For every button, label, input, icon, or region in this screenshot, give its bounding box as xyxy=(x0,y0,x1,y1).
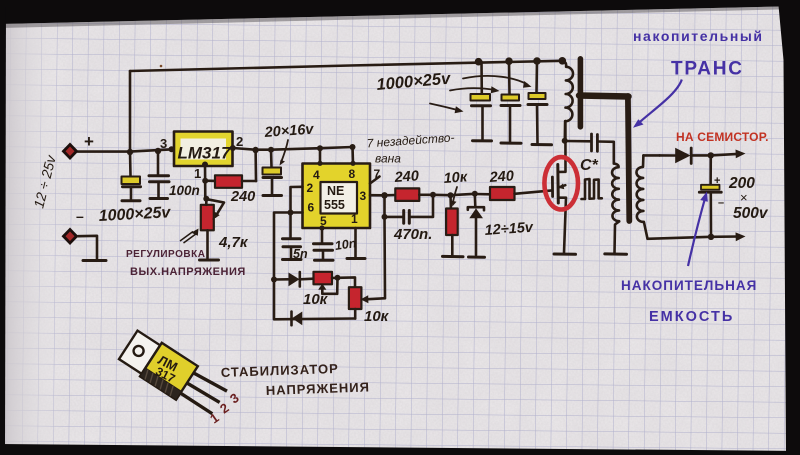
junction: LM317 pin 2 xyxy=(230,145,236,151)
junction: output minus node xyxy=(708,234,714,240)
terminal + (input plus) xyxy=(62,143,79,161)
svg-text:НАКОПИТЕЛЬНАЯ: НАКОПИТЕЛЬНАЯ xyxy=(621,278,757,293)
wiper R4 xyxy=(366,298,385,299)
svg-text:3: 3 xyxy=(160,136,167,151)
capacitor bank C5 1000x25v xyxy=(535,61,538,93)
junction: bus / zener xyxy=(472,191,478,197)
junction: rail / pin 8 xyxy=(350,144,356,150)
wire to R4 xyxy=(338,277,356,287)
svg-text:2: 2 xyxy=(307,181,314,195)
svg-text:C*: C* xyxy=(580,157,599,174)
svg-text:500v: 500v xyxy=(733,205,769,222)
svg-text:5: 5 xyxy=(320,214,327,228)
arrow output top xyxy=(711,154,740,156)
svg-text:–: – xyxy=(718,197,724,209)
svg-text:LM317: LM317 xyxy=(178,144,232,163)
junction: top bus / C5 xyxy=(533,57,541,65)
package bottom hatched edge xyxy=(140,368,182,400)
NE555 pin numbers xyxy=(307,167,381,228)
svg-text:вана: вана xyxy=(375,152,401,166)
wiper 4.7k xyxy=(208,199,225,216)
junction: node left of timing loop xyxy=(271,277,277,283)
red circle around Q1 xyxy=(544,157,578,209)
junction: top bus / C4 xyxy=(505,57,513,65)
capacitor C 1000x25v input electrolytic xyxy=(129,152,132,176)
scan border bottom xyxy=(0,444,800,455)
junction: drain / C* xyxy=(562,138,568,144)
diode D3 output xyxy=(660,154,675,157)
svg-text:3: 3 xyxy=(360,189,367,203)
svg-text:555: 555 xyxy=(324,198,345,212)
pulse waveform glyph xyxy=(582,179,602,199)
svg-text:470n.: 470n. xyxy=(393,226,432,243)
junction: pin 8 at box xyxy=(350,161,355,166)
legs xyxy=(193,370,227,393)
svg-text:1: 1 xyxy=(351,212,358,226)
svg-text:ТРАНС: ТРАНС xyxy=(671,59,744,80)
arrow output bottom xyxy=(711,235,740,238)
IC U2 NE555 box xyxy=(303,164,371,229)
svg-text:+: + xyxy=(84,132,94,151)
junction: input rail / C 1000x25v xyxy=(127,149,133,155)
capacitor bank C3 1000x25v xyxy=(480,62,483,94)
junction: output rail / R1 xyxy=(252,147,258,153)
transistor Q1 mosfet xyxy=(551,177,554,197)
junction: pins 2+6 xyxy=(288,210,294,216)
pin 3 stub xyxy=(370,194,385,197)
svg-text:7: 7 xyxy=(374,167,381,181)
wire: LM317 pin1 down xyxy=(204,165,207,200)
transformer T1 primary winding xyxy=(562,61,573,121)
wire pin 1 ground xyxy=(354,228,357,257)
transformer core xyxy=(578,59,584,127)
wire: LM317 pin2 out xyxy=(233,147,353,150)
wire: minus lead xyxy=(78,236,97,259)
capacitor 470n xyxy=(385,216,404,219)
svg-text:ВЫХ.НАПРЯЖЕНИЯ: ВЫХ.НАПРЯЖЕНИЯ xyxy=(130,266,246,278)
junction: bus / R6 xyxy=(448,192,454,198)
svg-text:10к: 10к xyxy=(303,291,329,308)
junction: input rail / C 100n xyxy=(155,148,161,154)
package body xyxy=(140,343,198,400)
svg-text:ЕМКОСТЬ: ЕМКОСТЬ xyxy=(649,309,734,325)
junction: pin 4 at box xyxy=(317,161,322,166)
wire: input rail + to LM317 pin 3 xyxy=(78,149,173,151)
svg-text:накопительный: накопительный xyxy=(633,28,764,44)
svg-text:×: × xyxy=(740,190,748,205)
pin digits 1 2 3 xyxy=(207,390,242,426)
junction: top bus / C3 xyxy=(475,58,483,66)
scan border right xyxy=(778,0,800,455)
wire: top bus from junction to transformer xyxy=(130,61,562,71)
resistor R1 240 xyxy=(206,179,215,182)
svg-text:10к: 10к xyxy=(364,308,390,325)
IC U1 LM317 regulator box xyxy=(174,132,233,167)
potentiometer R4 10k vertical xyxy=(349,287,362,309)
wire: pin 4 drop xyxy=(319,148,322,163)
svg-text:6: 6 xyxy=(308,201,315,215)
transformer T1 secondary winding xyxy=(636,155,643,222)
junction: output plus node xyxy=(708,152,714,158)
main vertical from pin3 node xyxy=(383,195,386,298)
junction: pin 3 node xyxy=(381,192,387,198)
junction: adj / pot 4.7k xyxy=(203,196,209,202)
svg-text:–: – xyxy=(76,208,84,224)
junction: R5 / 470n right xyxy=(430,192,436,198)
svg-text:100n: 100n xyxy=(169,183,200,198)
wire: bus to R6 xyxy=(433,194,451,197)
junction: pin 5 xyxy=(319,225,324,230)
svg-text:10к: 10к xyxy=(443,169,468,187)
resistor R5 240 xyxy=(385,194,396,197)
capacitor 20x16v xyxy=(270,150,273,167)
scan border left xyxy=(0,0,6,455)
terminal - (input minus) xyxy=(62,228,79,246)
capacitor 10n xyxy=(321,228,324,243)
arrow to core xyxy=(638,80,682,125)
capacitor 100n xyxy=(157,151,160,175)
wire: pin 8 drop xyxy=(351,147,354,163)
junction: R3 / R4 xyxy=(335,275,341,281)
svg-text:12÷15v: 12÷15v xyxy=(484,220,534,239)
svg-text:5n: 5n xyxy=(293,247,308,261)
junction: rail / pin 4 xyxy=(317,145,323,151)
arrow 10k label xyxy=(453,187,457,204)
capacitor C* xyxy=(565,140,591,143)
paper speck xyxy=(160,65,163,68)
wiper R3 xyxy=(322,278,337,294)
scan border top xyxy=(0,0,800,24)
capacitor 5n xyxy=(289,213,292,238)
svg-text:РЕГУЛИРОВКА: РЕГУЛИРОВКА xyxy=(126,249,205,260)
arrows from 1000x25v label xyxy=(463,76,528,85)
lead R6 top xyxy=(449,195,452,208)
svg-text:4,7к: 4,7к xyxy=(218,234,249,251)
potentiometer R2 4.7k xyxy=(201,205,214,231)
svg-text:4: 4 xyxy=(313,168,320,182)
bottom wire with diode D2 xyxy=(274,280,355,320)
arrow to регулировка xyxy=(180,232,197,244)
svg-text:8: 8 xyxy=(349,167,356,181)
pin 7 stub xyxy=(370,177,380,184)
svg-text:+: + xyxy=(714,175,720,187)
wire: vertical link top bus to input rail xyxy=(129,71,132,152)
potentiometer R3 10k horizontal xyxy=(314,272,333,285)
junction: LM317 pin 3 xyxy=(169,146,175,152)
svg-text:НА СЕМИСТОР.: НА СЕМИСТОР. xyxy=(676,130,769,144)
junction: LM317 adj / R1 xyxy=(202,178,208,184)
arrow to 20x16v xyxy=(281,140,288,163)
resistor R7 240 xyxy=(475,193,490,196)
svg-text:1: 1 xyxy=(194,166,201,181)
diode D1 xyxy=(274,278,288,281)
package tab xyxy=(119,331,160,374)
TO-220 package drawing xyxy=(117,328,229,420)
wires pins 2 and 6 xyxy=(291,187,303,213)
svg-text:240: 240 xyxy=(230,189,255,205)
svg-text:2: 2 xyxy=(236,134,243,149)
capacitor bank C4 1000x25v xyxy=(508,61,511,94)
ground minus xyxy=(83,259,106,262)
zener diode 12-15v xyxy=(451,194,475,195)
TEXT LAYER xyxy=(30,70,768,398)
svg-text:240: 240 xyxy=(393,168,419,186)
lead zener top xyxy=(473,194,476,207)
arrow to cap xyxy=(688,196,706,267)
junction: 470n tap xyxy=(382,214,388,220)
svg-text:240: 240 xyxy=(488,168,514,186)
capacitor C2 200x500v xyxy=(709,155,712,184)
junction: LM317 pin 1 xyxy=(202,162,208,168)
blue/violet annotation layer xyxy=(621,28,769,325)
svg-text:NE: NE xyxy=(327,184,344,198)
transformer T1 feedback winding xyxy=(612,164,619,222)
